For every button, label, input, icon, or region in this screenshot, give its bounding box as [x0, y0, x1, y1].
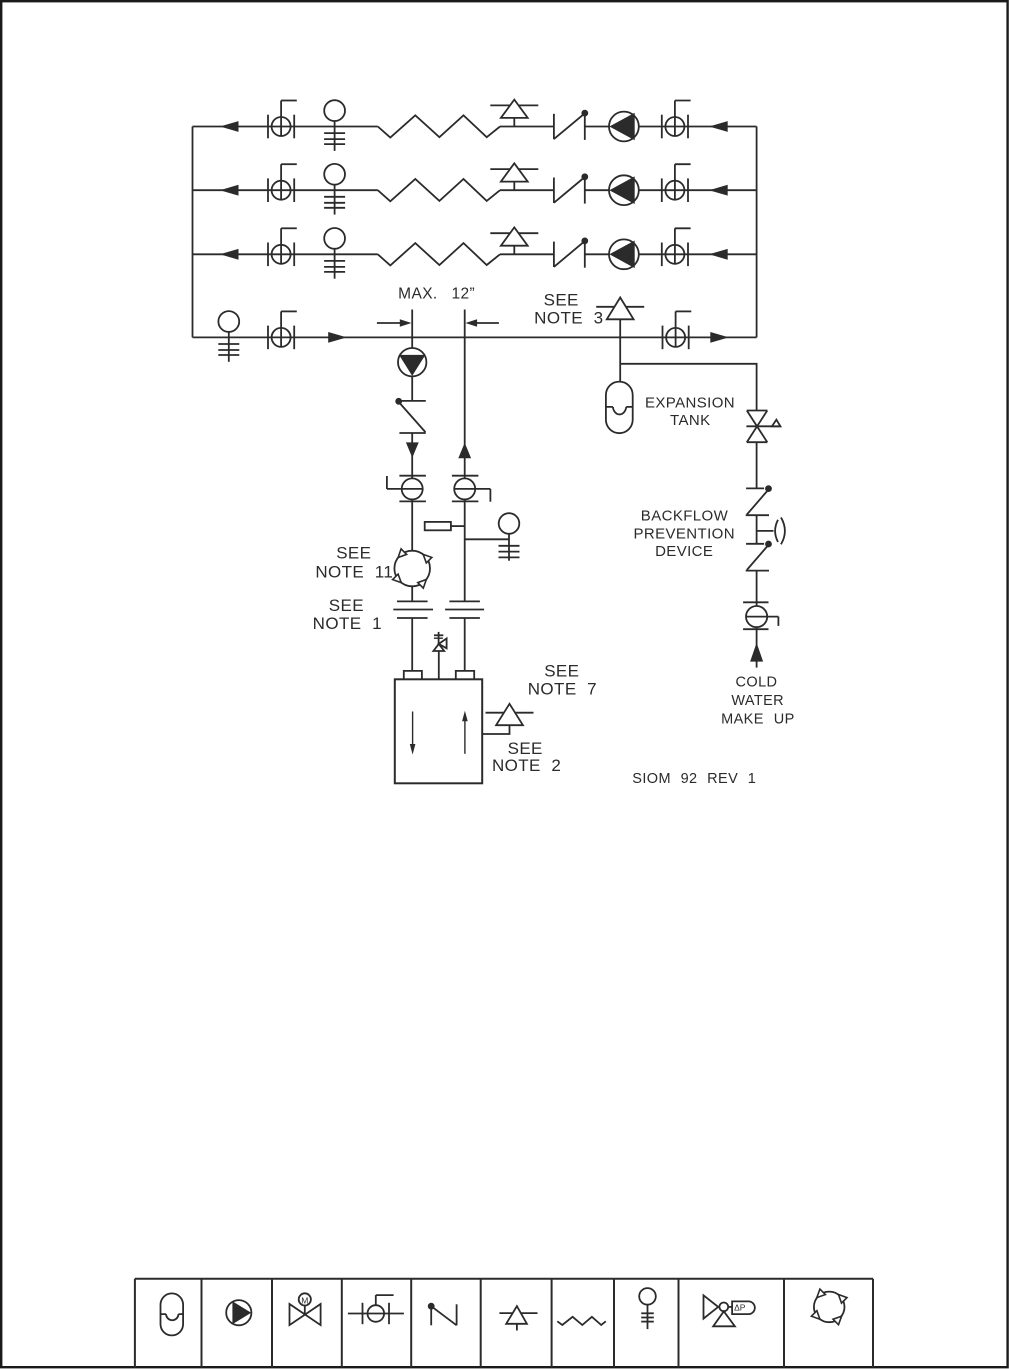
pressure reducing valve on make-up [746, 411, 781, 443]
svg-text:ΔP: ΔP [734, 1303, 746, 1313]
wire - left supply riser [192, 127, 194, 338]
svg-text:TANK: TANK [670, 412, 711, 429]
flow arrow into branch 3 [709, 249, 728, 260]
flow arrow left branch 3 [220, 249, 239, 260]
svg-text:DEVICE: DEVICE [655, 543, 713, 560]
air vent on header (see note 3) [596, 306, 644, 308]
union on drop 1 (see note 1) [393, 601, 433, 618]
wire - expansion tank drop [619, 337, 621, 381]
aquastat sensor on drop 2 [425, 522, 465, 530]
wire - boiler drop 1 [411, 337, 413, 671]
gauge branch 3 [324, 228, 345, 249]
backflow check valve 2 [746, 541, 772, 571]
wire - make-up column segment [756, 442, 758, 667]
flow arrow on header [328, 332, 347, 343]
svg-text:NOTE 3: NOTE 3 [534, 309, 603, 328]
flow arrow into branch 1 [709, 121, 728, 132]
gauge branch 1 [324, 100, 345, 121]
legend air vent symbol [499, 1306, 537, 1330]
legend pump symbol [226, 1300, 251, 1325]
svg-text:SEE: SEE [544, 291, 579, 310]
check valve branch 3 [553, 242, 555, 267]
flow arrow header right [710, 332, 729, 343]
wire - chiller branch 1 piping [193, 126, 757, 128]
pump branch 3 [609, 239, 639, 269]
legend table grid [135, 1279, 873, 1368]
boiler internal flow arrow up [462, 711, 468, 754]
wire - make-up branch [620, 364, 756, 411]
gauge branch 2 [324, 164, 345, 185]
svg-text:MAX.: MAX. [398, 286, 438, 303]
svg-text:NOTE 11: NOTE 11 [315, 563, 393, 582]
gauge cock valve on drop 2 [452, 476, 491, 502]
wire - chiller branch 2 piping [193, 189, 757, 191]
legend expansion tank symbol [161, 1293, 184, 1335]
relief vent on boiler side (see note 7) [482, 704, 533, 734]
backflow check valve 1 [746, 486, 772, 516]
butterfly valve branch 3 outlet [661, 243, 663, 267]
air vent branch 2 [490, 168, 538, 170]
flow arrow left branch 2 [220, 185, 239, 196]
svg-text:SEE: SEE [508, 739, 543, 758]
legend motorized valve symbol [290, 1293, 321, 1325]
check valve on drop 1 [396, 398, 426, 433]
air vent branch 3 [490, 232, 538, 234]
butterfly valve branch 2 inlet [267, 178, 269, 202]
svg-text:BACKFLOW: BACKFLOW [641, 507, 729, 524]
dimension MAX. 12 inch [377, 310, 499, 338]
flow arrow down on drop 1 [406, 442, 419, 457]
check valve branch 1 [553, 114, 555, 139]
legend gauge symbol [639, 1288, 656, 1329]
wire - chiller branch 3 piping [193, 253, 757, 255]
gauge cock valve on make-up [743, 602, 778, 629]
butterfly valve branch 2 outlet [661, 178, 663, 202]
wire - boiler drop 2 [464, 337, 466, 671]
check valve branch 2 [553, 178, 555, 203]
boiler vessel [395, 679, 482, 783]
flow arrow into branch 2 [709, 185, 728, 196]
evaporator coil branch 2 [378, 179, 500, 201]
svg-text:MAKE UP: MAKE UP [721, 711, 795, 727]
gauge on header [218, 311, 239, 332]
boiler stub 2 [456, 671, 474, 679]
legend check valve symbol [428, 1303, 456, 1325]
flow arrow left branch 1 [220, 121, 239, 132]
svg-text:COLD: COLD [736, 675, 778, 691]
butterfly valve branch 3 inlet [267, 243, 269, 267]
svg-text:NOTE 7: NOTE 7 [528, 679, 597, 698]
relief valve on boiler [433, 632, 446, 679]
gauge beside drop 2 [465, 513, 520, 561]
butterfly valve header right [662, 326, 664, 350]
boiler stub 1 [404, 671, 422, 679]
svg-text:SEE: SEE [336, 543, 371, 562]
butterfly valve branch 1 inlet [267, 115, 269, 139]
pump on drop 1 [398, 348, 426, 376]
pump branch 2 [609, 175, 639, 205]
svg-text:PREVENTION: PREVENTION [633, 526, 735, 543]
svg-text:SEE: SEE [544, 662, 579, 681]
test port on backflow device [757, 518, 785, 545]
legend coil symbol [557, 1317, 606, 1325]
svg-text:NOTE 1: NOTE 1 [313, 614, 382, 633]
evaporator coil branch 1 [378, 115, 500, 137]
svg-text:EXPANSION: EXPANSION [645, 395, 735, 412]
butterfly valve branch 1 outlet [661, 115, 663, 139]
pump branch 1 [609, 112, 639, 142]
union on drop 2 [445, 601, 484, 618]
boiler internal flow arrow down [410, 712, 416, 755]
evaporator coil branch 3 [378, 243, 500, 265]
expansion tank [606, 382, 633, 434]
four-way blending valve (see note 11) [393, 549, 432, 588]
svg-text:NOTE 2: NOTE 2 [492, 756, 561, 775]
wire - supply header [193, 336, 757, 338]
legend butterfly valve symbol [348, 1295, 404, 1324]
svg-text:SEE: SEE [329, 596, 364, 615]
svg-text:M: M [301, 1295, 308, 1305]
legend system circulation symbol [811, 1289, 847, 1325]
svg-text:WATER: WATER [731, 693, 784, 709]
air vent branch 1 [490, 104, 538, 106]
wire - right return riser [756, 127, 758, 338]
flow arrow up on drop 2 [458, 443, 471, 458]
gauge cock valve on drop 1 [387, 476, 426, 502]
flow arrow up cold water [750, 643, 763, 662]
svg-text:12”: 12” [451, 286, 475, 303]
legend differential pressure regulator symbol [704, 1295, 755, 1326]
svg-text:SIOM 92 REV 1: SIOM 92 REV 1 [632, 771, 756, 787]
butterfly valve on header [267, 326, 269, 350]
